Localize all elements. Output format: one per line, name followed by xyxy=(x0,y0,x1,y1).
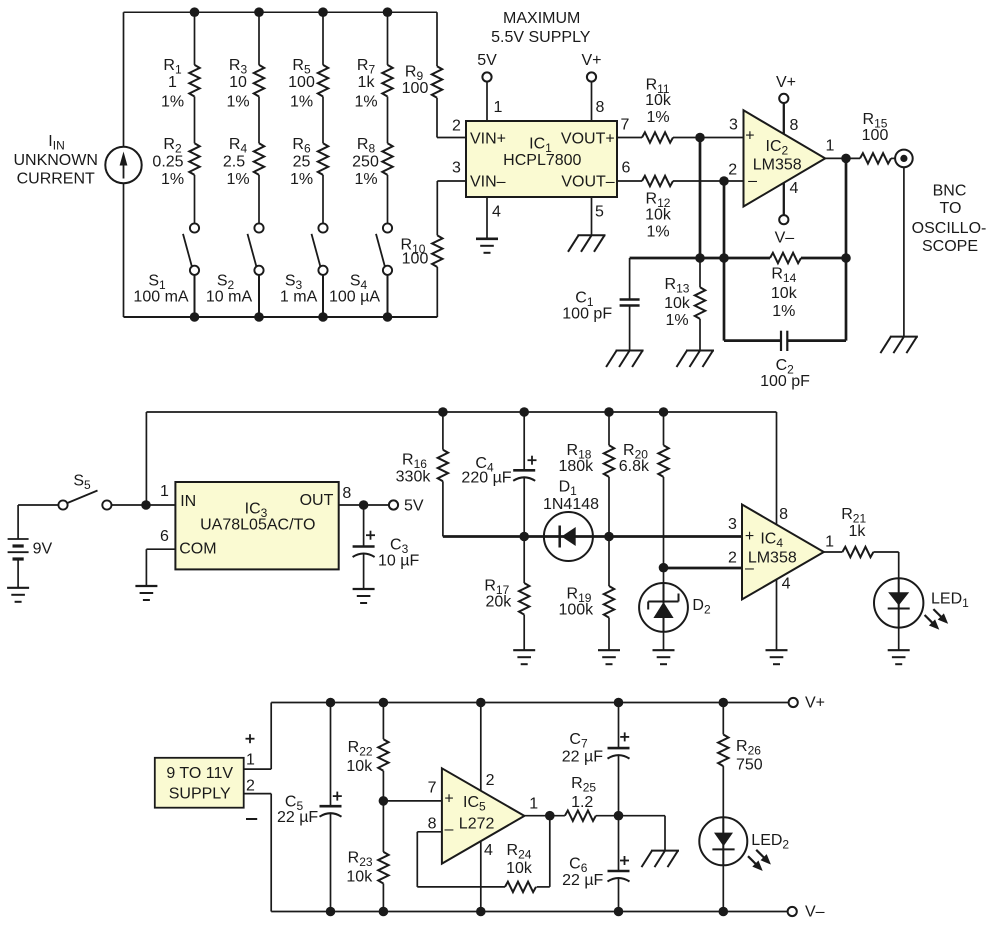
wire IC5 feedback xyxy=(417,831,442,833)
svg-text:1: 1 xyxy=(825,534,834,551)
svg-text:2.5: 2.5 xyxy=(223,154,245,171)
wire supply pin2 xyxy=(244,793,272,795)
svg-text:HCPL7800: HCPL7800 xyxy=(503,152,581,169)
wire pin5 IC1 xyxy=(591,197,593,235)
resistor R17 xyxy=(523,537,525,584)
svg-text:7: 7 xyxy=(428,779,437,796)
node junction minus input xyxy=(659,563,669,573)
svg-text:IN: IN xyxy=(180,493,196,510)
resistor R19 xyxy=(608,537,610,587)
wire IC3 OUT to 5V xyxy=(339,504,389,506)
svg-text:OSCILLO-: OSCILLO- xyxy=(912,220,987,237)
resistor R22 xyxy=(382,703,384,740)
svg-text:+: + xyxy=(745,128,754,145)
resistor R7 xyxy=(382,65,392,97)
node junction C4 top xyxy=(519,407,529,417)
svg-text:8: 8 xyxy=(596,99,605,116)
node 5V terminal middle xyxy=(389,500,398,509)
svg-text:BNC: BNC xyxy=(933,182,967,199)
svg-text:8: 8 xyxy=(790,117,799,134)
resistor R2 xyxy=(189,143,199,175)
supply box 9 TO 11V xyxy=(155,758,244,808)
ground COM xyxy=(135,585,157,587)
resistor R21 xyxy=(842,547,873,557)
wire IC4 output xyxy=(824,551,843,553)
wire plus input net xyxy=(443,535,742,538)
wire pin8 IC1 xyxy=(591,81,593,121)
wire column 4 upper xyxy=(387,12,389,65)
svg-text:1%: 1% xyxy=(646,109,669,126)
wire column 1 to switch xyxy=(194,175,196,224)
node V+ terminal bottom xyxy=(789,698,798,707)
svg-text:1: 1 xyxy=(494,99,503,116)
node junction C4 bottom xyxy=(519,532,529,542)
capacitor C3 xyxy=(363,505,365,547)
svg-text:2: 2 xyxy=(728,162,737,179)
node junction R26 top xyxy=(719,698,729,708)
ground R25 output xyxy=(651,850,679,852)
node junction bottom bus col4 xyxy=(383,312,393,322)
svg-text:COM: COM xyxy=(179,541,216,558)
wire IC5 output xyxy=(524,815,565,817)
svg-text:UA78L05AC/TO: UA78L05AC/TO xyxy=(200,516,315,533)
op-amp IC4 LM358 xyxy=(776,412,778,525)
svg-text:SCOPE: SCOPE xyxy=(922,238,978,255)
label plus supply xyxy=(246,738,255,740)
wire supply pin1 xyxy=(244,768,272,770)
resistor R1 xyxy=(189,65,199,97)
svg-text:V+: V+ xyxy=(581,52,601,69)
svg-text:MAXIMUM: MAXIMUM xyxy=(503,10,580,27)
svg-text:180k: 180k xyxy=(558,458,594,475)
svg-text:4: 4 xyxy=(790,180,799,197)
resistor R9 xyxy=(436,12,438,66)
svg-text:10k: 10k xyxy=(346,758,373,775)
svg-text:1k: 1k xyxy=(358,74,376,91)
wire to chassis ground xyxy=(664,816,666,851)
resistor R25 xyxy=(565,811,596,821)
svg-text:1%: 1% xyxy=(226,171,249,188)
wire pin4 IC1 xyxy=(486,197,488,239)
svg-text:VIN–: VIN– xyxy=(470,174,506,191)
resistor R6 xyxy=(318,143,328,175)
node junction OUT xyxy=(359,500,369,510)
svg-text:1%: 1% xyxy=(665,312,688,329)
resistor R23 xyxy=(382,801,384,852)
svg-text:1: 1 xyxy=(825,137,834,154)
svg-text:3: 3 xyxy=(729,117,738,134)
svg-text:7: 7 xyxy=(621,117,630,134)
svg-text:–: – xyxy=(745,560,754,577)
svg-text:V–: V– xyxy=(775,230,795,247)
ground R17 xyxy=(513,649,535,651)
svg-text:20k: 20k xyxy=(486,594,513,611)
LED2 arrows xyxy=(756,850,766,860)
wire column 2 middle xyxy=(258,97,260,144)
ground D2 xyxy=(653,649,675,651)
switch S3 xyxy=(318,223,327,232)
svg-text:100: 100 xyxy=(402,251,429,268)
node junction R13 top xyxy=(695,253,705,263)
svg-text:1N4148: 1N4148 xyxy=(543,496,599,513)
svg-text:VOUT–: VOUT– xyxy=(561,174,614,191)
ground LED1 xyxy=(888,649,910,651)
wire IC5 pin2 xyxy=(480,703,482,791)
wire R24 to output xyxy=(537,886,550,888)
svg-text:1%: 1% xyxy=(161,93,184,110)
label minus supply xyxy=(246,818,257,820)
svg-text:10k: 10k xyxy=(771,285,798,302)
svg-text:1%: 1% xyxy=(354,171,377,188)
svg-text:TO: TO xyxy=(940,200,962,217)
resistor R10 xyxy=(436,267,438,317)
ground R19 xyxy=(598,649,620,651)
svg-text:100: 100 xyxy=(288,74,315,91)
capacitor C7 xyxy=(618,703,620,749)
wire top bus xyxy=(124,11,438,13)
svg-text:10 µF: 10 µF xyxy=(378,553,419,570)
resistor R18 xyxy=(608,412,610,445)
svg-text:L272: L272 xyxy=(459,815,495,832)
svg-text:1: 1 xyxy=(529,795,538,812)
wire column 1 middle xyxy=(194,97,196,144)
ground R13 xyxy=(686,350,714,352)
wire R9 to VIN+ xyxy=(437,137,466,139)
svg-text:100 mA: 100 mA xyxy=(133,288,188,305)
svg-text:100 µA: 100 µA xyxy=(329,288,380,305)
node junction R16 top xyxy=(438,407,448,417)
svg-text:8: 8 xyxy=(342,485,351,502)
node junction R14 right xyxy=(841,253,851,263)
LED1 arrows xyxy=(933,609,943,619)
svg-text:10k: 10k xyxy=(664,295,691,312)
svg-text:4: 4 xyxy=(492,204,501,221)
wire R14 right lead xyxy=(801,257,846,260)
svg-text:UNKNOWN: UNKNOWN xyxy=(13,152,97,169)
op-amp IC2 LM358 xyxy=(744,110,826,206)
svg-text:LM358: LM358 xyxy=(753,156,802,173)
diode D1 1N4148 xyxy=(544,512,593,561)
node junction IC5 pin2 top xyxy=(476,698,486,708)
wire R15 to BNC xyxy=(891,157,895,159)
wire R10 to VIN- xyxy=(437,180,466,182)
svg-text:–: – xyxy=(445,821,454,838)
ground pin4 IC1 xyxy=(476,237,498,240)
connector BNC xyxy=(895,150,913,168)
svg-text:100 pF: 100 pF xyxy=(562,305,612,322)
node junction IC2 output xyxy=(841,154,851,164)
svg-text:100 pF: 100 pF xyxy=(760,373,810,390)
svg-text:10k: 10k xyxy=(506,860,533,877)
wire column 2 upper xyxy=(258,12,260,65)
ground BNC xyxy=(890,336,918,338)
svg-text:VIN+: VIN+ xyxy=(470,131,506,148)
node junction R22 R23 xyxy=(379,796,389,806)
resistor R5 xyxy=(318,65,328,97)
wire BNC to ground xyxy=(903,167,905,336)
node junction top bus col2 xyxy=(254,7,264,17)
svg-text:1%: 1% xyxy=(646,223,669,240)
svg-text:2: 2 xyxy=(246,777,255,794)
current source IIN xyxy=(123,12,125,147)
svg-text:6: 6 xyxy=(622,160,631,177)
svg-text:1%: 1% xyxy=(290,171,313,188)
label C7 value xyxy=(620,736,629,738)
svg-text:10k: 10k xyxy=(346,868,373,885)
wire IC3 COM xyxy=(146,548,175,550)
svg-text:VOUT+: VOUT+ xyxy=(561,131,615,148)
svg-text:3: 3 xyxy=(728,516,737,533)
wire R12 to IC2 pin2 xyxy=(673,180,744,182)
resistor R15 xyxy=(860,153,891,163)
svg-text:OUT: OUT xyxy=(300,492,334,509)
node V- terminal IC2 xyxy=(779,215,788,224)
svg-text:2: 2 xyxy=(486,772,495,789)
node junction D1 R18 xyxy=(604,532,614,542)
node junction C7 C6 xyxy=(614,811,624,821)
ground pin5 IC1 xyxy=(578,234,606,236)
node junction bottom bus col1 xyxy=(190,312,200,322)
switch S5 xyxy=(58,500,67,509)
svg-text:1 mA: 1 mA xyxy=(280,288,318,305)
wire column 4 to switch xyxy=(387,175,389,224)
switch S2 xyxy=(254,223,263,232)
wire S5 to IC3 xyxy=(111,504,175,506)
wire pin4 IC2 xyxy=(783,183,785,216)
resistor R14 xyxy=(770,253,801,263)
wire middle bus xyxy=(146,411,776,413)
svg-text:1.2: 1.2 xyxy=(571,794,593,811)
node V- terminal bottom xyxy=(788,907,797,916)
wire pin1 IC1 xyxy=(486,81,488,121)
svg-text:220 µF: 220 µF xyxy=(461,470,511,487)
switch S1 xyxy=(190,223,199,232)
wire C2 bottom right xyxy=(787,339,846,342)
node junction IC5 output xyxy=(545,811,555,821)
svg-text:25: 25 xyxy=(293,154,311,171)
wire C1 to R13 junction xyxy=(630,257,770,260)
resistor R12 xyxy=(642,176,673,186)
svg-text:2: 2 xyxy=(728,550,737,567)
label C6 value xyxy=(620,860,629,862)
node junction R18 top xyxy=(604,407,614,417)
node junction top bus col4 xyxy=(383,7,393,17)
svg-text:22 µF: 22 µF xyxy=(562,872,603,889)
op-amp IC1 HCPL7800 box xyxy=(466,121,617,197)
node junction LED2 bottom xyxy=(719,907,729,917)
svg-text:750: 750 xyxy=(736,757,763,774)
resistor R20 xyxy=(663,412,665,445)
wire output vertical to C2 xyxy=(845,158,848,340)
svg-text:100: 100 xyxy=(402,80,429,97)
svg-text:CURRENT: CURRENT xyxy=(17,171,95,188)
node junction bottom bus col3 xyxy=(318,312,328,322)
battery 9V xyxy=(18,504,58,506)
node junction top bus col3 xyxy=(318,7,328,17)
diode D2 zener xyxy=(663,568,665,651)
ground C1 xyxy=(616,350,644,352)
resistor R16 xyxy=(442,412,444,450)
resistor R11 xyxy=(642,132,673,142)
svg-text:–: – xyxy=(748,173,757,190)
wire middle bus left leg xyxy=(145,412,147,505)
ground battery xyxy=(7,587,29,589)
resistor R4 xyxy=(254,143,264,175)
svg-text:1%: 1% xyxy=(290,93,313,110)
svg-text:8: 8 xyxy=(428,815,437,832)
svg-text:250: 250 xyxy=(352,154,379,171)
svg-text:6.8k: 6.8k xyxy=(619,458,650,475)
LED LED1 xyxy=(874,578,923,627)
svg-text:1%: 1% xyxy=(354,93,377,110)
wire pin8 IC2 xyxy=(783,103,785,134)
svg-text:+: + xyxy=(444,791,453,808)
wire node B vertical pin2 to C2 xyxy=(723,181,726,341)
svg-text:4: 4 xyxy=(484,842,493,859)
svg-text:1%: 1% xyxy=(226,93,249,110)
svg-text:22 µF: 22 µF xyxy=(562,749,603,766)
label C5 value xyxy=(333,795,342,797)
svg-text:5V: 5V xyxy=(404,497,424,514)
svg-text:330k: 330k xyxy=(396,469,432,486)
op-amp IC5 L272 xyxy=(442,768,525,863)
svg-text:5V: 5V xyxy=(477,52,497,69)
svg-text:0.25: 0.25 xyxy=(152,154,183,171)
svg-text:22 µF: 22 µF xyxy=(277,809,318,826)
wire column 2 to switch xyxy=(258,175,260,224)
svg-text:5.5V SUPPLY: 5.5V SUPPLY xyxy=(491,29,591,46)
wire column 3 to switch xyxy=(322,175,324,224)
wire IC2 output xyxy=(825,157,860,159)
capacitor C6 xyxy=(618,816,620,871)
resistor R3 xyxy=(254,65,264,97)
svg-text:10 mA: 10 mA xyxy=(206,288,253,305)
label C4 value xyxy=(528,459,537,461)
wire switch S2 to bottom bus xyxy=(258,275,260,317)
svg-text:LM358: LM358 xyxy=(748,550,797,567)
resistor R24 xyxy=(505,882,536,892)
wire bottom bus xyxy=(124,316,438,318)
switch S4 xyxy=(383,223,392,232)
svg-text:SUPPLY: SUPPLY xyxy=(169,785,231,802)
svg-text:6: 6 xyxy=(160,528,169,545)
wire R21 to LED1 xyxy=(873,551,898,553)
wire node A vertical pin3 to R13 xyxy=(699,138,702,259)
node junction top bus col1 xyxy=(190,7,200,17)
node junction IC5 pin4 bottom xyxy=(476,907,486,917)
capacitor C5 xyxy=(330,703,332,807)
wire switch S3 to bottom bus xyxy=(322,275,324,317)
node junction R12 out xyxy=(719,176,729,186)
svg-text:100: 100 xyxy=(862,127,889,144)
node junction IC3 IN xyxy=(141,500,151,510)
capacitor C4 xyxy=(523,412,525,470)
wire bottom top bus xyxy=(271,702,789,704)
node junction R20 top xyxy=(659,407,669,417)
node junction C6 bottom xyxy=(614,907,624,917)
node junction R14 left xyxy=(719,253,729,263)
svg-text:V+: V+ xyxy=(776,74,796,91)
wire pin4 IC4 xyxy=(776,579,778,650)
wire column 3 middle xyxy=(322,97,324,144)
node junction C7 top xyxy=(614,698,624,708)
svg-text:2: 2 xyxy=(452,118,461,135)
svg-text:10: 10 xyxy=(229,74,247,91)
wire VOUT+ to R11 xyxy=(617,137,642,139)
resistor R13 xyxy=(699,258,701,287)
wire minus input net xyxy=(664,567,743,570)
node junction C5 bottom xyxy=(326,907,336,917)
wire column 4 middle xyxy=(387,97,389,144)
wire switch S4 to bottom bus xyxy=(387,275,389,317)
svg-text:5: 5 xyxy=(595,204,604,221)
svg-text:1: 1 xyxy=(246,752,255,769)
wire IC5 pin4 xyxy=(480,841,482,911)
label C3 value xyxy=(366,534,375,536)
wire column 1 upper xyxy=(194,12,196,65)
capacitor C2 xyxy=(780,331,782,351)
regulator IC3 UA78L05AC/TO box xyxy=(175,482,338,569)
svg-text:1: 1 xyxy=(168,74,177,91)
node junction R11 out xyxy=(695,133,705,143)
svg-text:9V: 9V xyxy=(33,541,53,558)
wire bottom bottom bus xyxy=(271,911,788,913)
svg-text:10k: 10k xyxy=(645,206,672,223)
svg-text:100k: 100k xyxy=(558,602,594,619)
wire VOUT- to R12 xyxy=(617,180,642,182)
resistor R26 xyxy=(722,703,724,735)
node junction C5 top xyxy=(326,698,336,708)
capacitor C1 xyxy=(629,258,631,299)
node junction R23 bottom xyxy=(379,907,389,917)
wire C2 bottom left xyxy=(724,339,781,342)
resistor R8 xyxy=(382,143,392,175)
svg-text:1%: 1% xyxy=(772,303,795,320)
wire to IC5 pin7 xyxy=(383,800,442,802)
LED LED2 xyxy=(699,817,747,865)
node junction R22 top xyxy=(379,698,389,708)
svg-text:3: 3 xyxy=(452,159,461,176)
svg-text:10k: 10k xyxy=(645,92,672,109)
svg-text:9 TO 11V: 9 TO 11V xyxy=(166,765,233,782)
svg-text:4: 4 xyxy=(782,575,791,592)
svg-text:1: 1 xyxy=(160,483,169,500)
svg-text:1%: 1% xyxy=(161,171,184,188)
wire column 3 upper xyxy=(322,12,324,65)
svg-text:V–: V– xyxy=(805,904,825,921)
node junction bottom bus col2 xyxy=(254,312,264,322)
wire R25 to C7 C6 xyxy=(596,815,665,817)
svg-text:8: 8 xyxy=(779,506,788,523)
ground IC4 xyxy=(766,649,788,651)
ground C3 xyxy=(353,588,375,590)
svg-text:V+: V+ xyxy=(805,695,825,712)
wire switch S1 to bottom bus xyxy=(194,275,196,317)
wire R11 to IC2 pin3 xyxy=(673,137,744,139)
svg-text:1k: 1k xyxy=(848,523,866,540)
svg-text:+: + xyxy=(745,528,754,545)
